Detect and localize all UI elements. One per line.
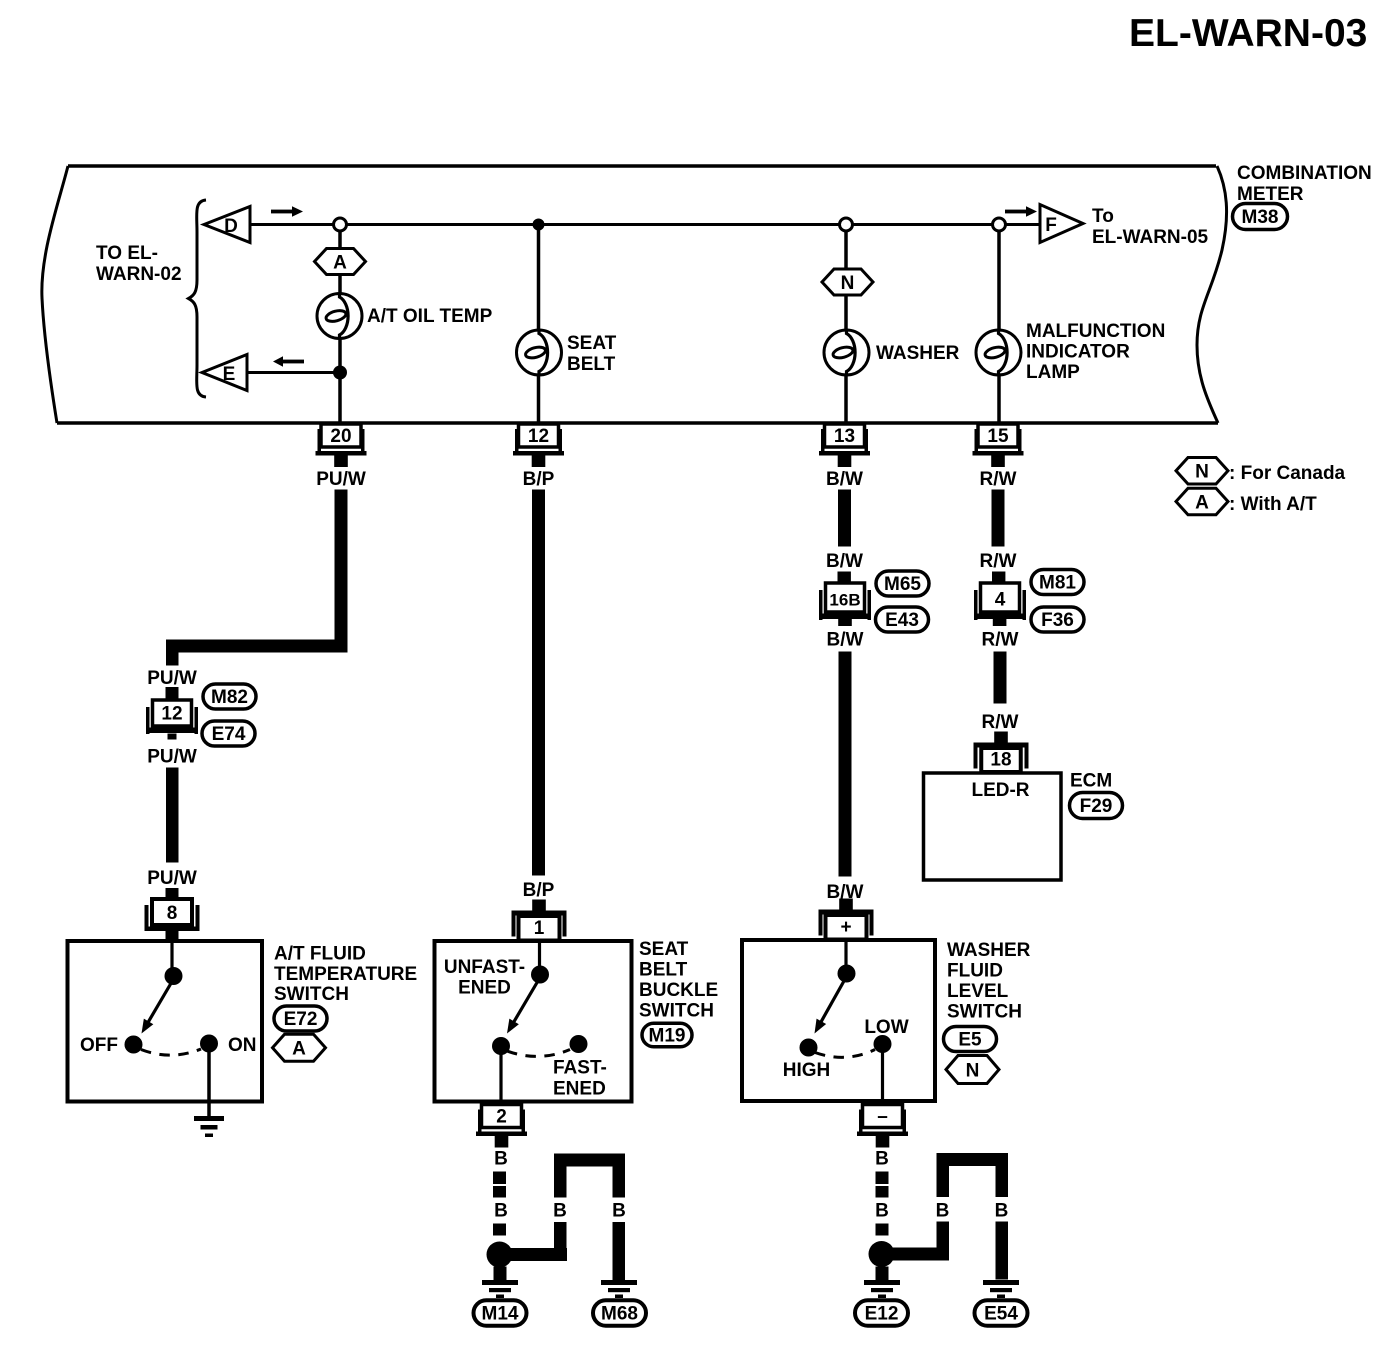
label A/T OIL TEMP bbox=[367, 306, 493, 327]
label PU/W (below E74) bbox=[147, 747, 197, 768]
wire B dash to splice bbox=[493, 1224, 506, 1236]
node MIL bus (open) bbox=[993, 218, 1006, 231]
svg-text:ENED: ENED bbox=[458, 978, 511, 999]
lamp MALFUNCTION INDICATOR bbox=[976, 329, 1021, 376]
svg-text:8: 8 bbox=[167, 903, 178, 924]
label B/W (below 16B) bbox=[827, 630, 864, 651]
svg-text:TEMPERATURE: TEMPERATURE bbox=[274, 964, 417, 985]
label PU/W (pin 20) bbox=[316, 469, 366, 490]
svg-text:ECM: ECM bbox=[1070, 771, 1112, 792]
svg-text:B: B bbox=[875, 1201, 889, 1222]
svg-text:TO EL-: TO EL- bbox=[96, 243, 158, 264]
svg-text:M68: M68 bbox=[601, 1304, 638, 1325]
connector 8 (A/T fluid temp switch) bbox=[145, 888, 200, 942]
connector 4 in-line bbox=[974, 583, 1026, 620]
svg-text:D: D bbox=[224, 216, 238, 237]
ground ref E54 bbox=[975, 1300, 1028, 1326]
wire branch inverted-U bbox=[554, 1154, 625, 1198]
contact HIGH bbox=[783, 1039, 831, 1082]
connector ref M19 bbox=[642, 1023, 692, 1047]
svg-text:M65: M65 bbox=[884, 574, 921, 595]
svg-text:R/W: R/W bbox=[980, 551, 1017, 572]
wire A/T lamp column bbox=[338, 225, 342, 424]
legend tag A bbox=[1176, 488, 1317, 515]
combination meter label bbox=[1237, 163, 1372, 205]
svg-text:EL-WARN-03: EL-WARN-03 bbox=[1129, 12, 1367, 55]
wire stub below 16B bbox=[838, 614, 852, 626]
svg-text:12: 12 bbox=[161, 704, 182, 725]
svg-text:PU/W: PU/W bbox=[147, 747, 197, 768]
splice (washer grounds) bbox=[869, 1241, 895, 1267]
svg-text:B: B bbox=[553, 1201, 567, 1222]
svg-text:E54: E54 bbox=[984, 1304, 1018, 1325]
wire PU/W to connector 8 bbox=[166, 768, 179, 863]
combination meter box M38 bbox=[42, 166, 1227, 423]
svg-text:A/T FLUID: A/T FLUID bbox=[274, 944, 366, 965]
svg-text:B: B bbox=[612, 1201, 626, 1222]
ground M68 bbox=[601, 1280, 637, 1298]
svg-text:B: B bbox=[494, 1201, 508, 1222]
svg-text:BELT: BELT bbox=[567, 354, 616, 375]
wire into switch bbox=[170, 943, 173, 970]
connector - (washer switch) bbox=[857, 1105, 908, 1148]
svg-text:N: N bbox=[841, 273, 855, 294]
lamp SEAT BELT bbox=[517, 329, 562, 376]
svg-text:M82: M82 bbox=[211, 687, 248, 708]
wire stub above 16B bbox=[838, 572, 851, 584]
svg-text:R/W: R/W bbox=[980, 469, 1017, 490]
wire LOW to pin - bbox=[881, 1044, 884, 1100]
wire seat belt lamp column bbox=[537, 225, 541, 424]
ground ref M68 bbox=[593, 1300, 646, 1326]
label R/W (above ECM) bbox=[982, 712, 1019, 733]
label B (below pin -) bbox=[875, 1149, 889, 1170]
off-page connector D bbox=[204, 207, 250, 243]
wire PU/W thick run bbox=[166, 490, 348, 666]
wire into washer switch bbox=[844, 942, 847, 968]
washer switch pivot bbox=[838, 965, 856, 983]
connector ref E43 bbox=[876, 607, 929, 632]
option tag A (with A/T) bbox=[315, 249, 366, 275]
wire to ground M68 bbox=[613, 1222, 626, 1280]
junction E branch bbox=[333, 366, 347, 380]
arrow right at D bbox=[271, 206, 303, 216]
svg-text:LED-R: LED-R bbox=[971, 780, 1029, 801]
svg-text:OFF: OFF bbox=[80, 1035, 118, 1056]
svg-text:EL-WARN-05: EL-WARN-05 bbox=[1092, 227, 1209, 248]
contact OFF bbox=[80, 1035, 143, 1056]
wire stub below 4 bbox=[993, 614, 1007, 626]
connector 13 (combination meter) bbox=[819, 424, 870, 467]
splice (seat belt grounds) bbox=[487, 1242, 513, 1268]
wire main bus bbox=[250, 223, 1040, 226]
switch throw arc bbox=[141, 1049, 201, 1055]
arrow right at F bbox=[1005, 206, 1037, 216]
connector ref F29 bbox=[1070, 793, 1123, 819]
arrow left at E bbox=[273, 356, 304, 366]
svg-text:–: – bbox=[877, 1107, 888, 1128]
label B/W (above washer sw) bbox=[827, 882, 864, 903]
svg-text:SWITCH: SWITCH bbox=[639, 1001, 714, 1022]
connector 18 (ECM) bbox=[974, 732, 1029, 773]
connector + (washer fluid level switch) bbox=[819, 899, 874, 940]
svg-text:R/W: R/W bbox=[982, 712, 1019, 733]
svg-text:20: 20 bbox=[330, 426, 351, 447]
svg-text:A: A bbox=[1195, 493, 1209, 514]
off-page connector F bbox=[1040, 205, 1083, 243]
ECM box bbox=[924, 773, 1062, 880]
connector ref M38 bbox=[1233, 204, 1288, 230]
svg-text:BELT: BELT bbox=[639, 960, 688, 981]
svg-text:E43: E43 bbox=[885, 610, 919, 631]
label B/P (above pin 1) bbox=[523, 880, 555, 901]
svg-text:A/T OIL TEMP: A/T OIL TEMP bbox=[367, 306, 493, 327]
label B/W (above 16B) bbox=[826, 551, 863, 572]
ground M14 bbox=[482, 1267, 518, 1299]
label seat belt buckle switch bbox=[639, 939, 718, 1022]
contact ON bbox=[200, 1035, 257, 1057]
label R/W (pin 15) bbox=[980, 469, 1017, 490]
wire B/P thick run bbox=[532, 490, 545, 876]
label B (branch right) bbox=[612, 1201, 626, 1222]
svg-text:F: F bbox=[1045, 215, 1057, 236]
svg-text:A: A bbox=[292, 1039, 306, 1060]
svg-text:R/W: R/W bbox=[982, 630, 1019, 651]
svg-text:15: 15 bbox=[987, 426, 1009, 447]
label R/W (below 4) bbox=[982, 630, 1019, 651]
wire splice to branch bbox=[509, 1222, 567, 1261]
wire stub above connector 12 bbox=[166, 687, 179, 701]
washer switch throw arc bbox=[815, 1050, 875, 1058]
wire washer lamp column bbox=[844, 225, 848, 424]
ground ref E12 bbox=[855, 1300, 908, 1326]
svg-text:WASHER: WASHER bbox=[876, 343, 960, 364]
off-page connector E bbox=[202, 355, 247, 391]
svg-text:M38: M38 bbox=[1242, 207, 1279, 228]
washer switch arm bbox=[815, 977, 847, 1034]
svg-text:ON: ON bbox=[228, 1035, 257, 1056]
svg-text:HIGH: HIGH bbox=[783, 1060, 831, 1081]
svg-text:4: 4 bbox=[995, 590, 1006, 611]
wire B/W upper bbox=[838, 490, 851, 547]
svg-text:B: B bbox=[936, 1201, 950, 1222]
ground (A/T switch) bbox=[194, 1116, 224, 1137]
wire B dashed upper bbox=[493, 1172, 506, 1198]
lamp A/T OIL TEMP bbox=[317, 293, 362, 340]
label B (washer branch left) bbox=[936, 1201, 950, 1222]
label B (above splice M14) bbox=[494, 1201, 508, 1222]
svg-text:: With A/T: : With A/T bbox=[1229, 494, 1317, 515]
svg-text:BUCKLE: BUCKLE bbox=[639, 980, 718, 1001]
ground E54 bbox=[983, 1280, 1019, 1298]
wire R/W middle bbox=[994, 652, 1007, 704]
lamp WASHER bbox=[824, 329, 869, 376]
connector ref E72 bbox=[274, 1006, 327, 1031]
label ECM bbox=[1070, 771, 1112, 792]
connector ref M81 bbox=[1031, 570, 1084, 595]
label PU/W (above M82) bbox=[147, 668, 197, 689]
svg-text:A: A bbox=[333, 253, 347, 274]
svg-text:UNFAST-: UNFAST- bbox=[444, 957, 525, 978]
svg-text:12: 12 bbox=[528, 426, 549, 447]
label LED-R bbox=[971, 780, 1029, 801]
svg-text:SEAT: SEAT bbox=[639, 939, 689, 960]
seat belt buckle switch box bbox=[435, 941, 632, 1102]
label WASHER bbox=[876, 343, 960, 364]
ground ref M14 bbox=[474, 1300, 527, 1326]
svg-text:B/W: B/W bbox=[826, 551, 863, 572]
wire B/W long run bbox=[839, 652, 852, 877]
svg-text:PU/W: PU/W bbox=[147, 868, 197, 889]
label B (above splice E12) bbox=[875, 1201, 889, 1222]
connector ref M65 bbox=[876, 571, 929, 596]
svg-text:E72: E72 bbox=[284, 1009, 318, 1030]
contact unfastened bbox=[492, 1037, 510, 1055]
connector ref E74 bbox=[202, 721, 255, 746]
svg-text:M19: M19 bbox=[649, 1026, 686, 1047]
svg-text:SWITCH: SWITCH bbox=[274, 984, 349, 1005]
wire to ground E54 bbox=[996, 1222, 1009, 1280]
svg-text:COMBINATION: COMBINATION bbox=[1237, 163, 1372, 184]
svg-text:M81: M81 bbox=[1039, 573, 1076, 594]
label FASTENED bbox=[553, 1058, 607, 1100]
svg-text:B: B bbox=[995, 1201, 1009, 1222]
svg-text:N: N bbox=[1195, 462, 1209, 483]
wire unfastened to pin 2 bbox=[499, 1046, 502, 1100]
buckle switch arm bbox=[507, 978, 540, 1034]
connector 12 in-line bbox=[146, 700, 198, 734]
wire branch inverted-U (washer) bbox=[937, 1153, 1009, 1197]
svg-text:MALFUNCTION: MALFUNCTION bbox=[1026, 321, 1165, 342]
svg-text:FLUID: FLUID bbox=[947, 961, 1003, 982]
svg-text:16B: 16B bbox=[829, 591, 860, 610]
label B/P (pin 12) bbox=[523, 469, 555, 490]
title EL-WARN-03 bbox=[1129, 12, 1367, 55]
label MALFUNCTION INDICATOR LAMP bbox=[1026, 321, 1165, 383]
node washer bus (open) bbox=[840, 218, 853, 231]
svg-text:B/P: B/P bbox=[523, 880, 555, 901]
label R/W (above 4) bbox=[980, 551, 1017, 572]
brace to EL-WARN-02 bbox=[189, 200, 207, 397]
svg-text:FAST-: FAST- bbox=[553, 1058, 607, 1079]
svg-text:PU/W: PU/W bbox=[147, 668, 197, 689]
label B (branch left) bbox=[553, 1201, 567, 1222]
buckle switch pivot bbox=[531, 966, 549, 984]
contact LOW bbox=[864, 1017, 908, 1053]
svg-text:E5: E5 bbox=[958, 1030, 982, 1051]
svg-text:1: 1 bbox=[534, 918, 545, 939]
connector 15 (combination meter) bbox=[973, 424, 1024, 467]
wire splice to branch (washer) bbox=[891, 1222, 949, 1261]
option tag A (switch) bbox=[273, 1034, 326, 1061]
svg-text:2: 2 bbox=[496, 1107, 507, 1128]
wire stub above 4 bbox=[992, 572, 1005, 584]
wire stub below connector 12 bbox=[168, 734, 177, 740]
contact fastened bbox=[570, 1035, 588, 1053]
svg-text:13: 13 bbox=[834, 426, 855, 447]
svg-text:E12: E12 bbox=[865, 1304, 899, 1325]
option tag N (washer switch) bbox=[946, 1056, 999, 1084]
svg-text:INDICATOR: INDICATOR bbox=[1026, 342, 1130, 363]
connector 2 (buckle switch) bbox=[476, 1105, 527, 1148]
label SEAT BELT bbox=[567, 333, 617, 375]
washer fluid level switch box bbox=[742, 940, 935, 1101]
A/T fluid temperature switch box bbox=[68, 941, 263, 1102]
label B (below pin 2) bbox=[494, 1149, 508, 1170]
svg-text:To: To bbox=[1092, 206, 1114, 227]
label TO EL-WARN-02 bbox=[96, 243, 182, 285]
label B (washer branch right) bbox=[995, 1201, 1009, 1222]
svg-text:B: B bbox=[494, 1149, 508, 1170]
label B/W (pin 13) bbox=[826, 469, 863, 490]
svg-text:18: 18 bbox=[990, 750, 1011, 771]
connector 1 (seat belt buckle switch) bbox=[512, 900, 567, 941]
switch arm bbox=[142, 979, 174, 1034]
svg-text:WASHER: WASHER bbox=[947, 940, 1031, 961]
svg-text:SWITCH: SWITCH bbox=[947, 1002, 1022, 1023]
svg-text:E: E bbox=[223, 364, 236, 385]
svg-text:ENED: ENED bbox=[553, 1079, 606, 1100]
connector 12 (combination meter) bbox=[513, 424, 564, 467]
wire ON to ground bbox=[207, 1044, 211, 1117]
connector ref F36 bbox=[1031, 607, 1084, 632]
svg-text:B/W: B/W bbox=[827, 630, 864, 651]
label A/T fluid temperature switch bbox=[274, 944, 417, 1006]
wire E branch bbox=[247, 371, 341, 374]
svg-text:PU/W: PU/W bbox=[316, 469, 366, 490]
svg-text:LEVEL: LEVEL bbox=[947, 981, 1009, 1002]
svg-text:LAMP: LAMP bbox=[1026, 362, 1080, 383]
svg-text:N: N bbox=[966, 1061, 980, 1082]
wire into buckle switch bbox=[538, 943, 541, 969]
wire R/W upper bbox=[992, 490, 1005, 547]
svg-text:WARN-02: WARN-02 bbox=[96, 264, 182, 285]
svg-text:M14: M14 bbox=[482, 1304, 519, 1325]
buckle switch throw arc bbox=[507, 1050, 570, 1057]
wire B dashed upper (washer) bbox=[876, 1172, 889, 1198]
svg-text:+: + bbox=[840, 917, 851, 938]
option tag N (for Canada) bbox=[822, 269, 873, 295]
label To EL-WARN-05 bbox=[1092, 206, 1209, 248]
node A/T bus (open) bbox=[334, 218, 347, 231]
wire MIL lamp column bbox=[997, 225, 1001, 424]
svg-text:B/P: B/P bbox=[523, 469, 555, 490]
junction seat belt bus bbox=[533, 219, 545, 231]
svg-text:LOW: LOW bbox=[864, 1017, 908, 1038]
svg-text:B/W: B/W bbox=[826, 469, 863, 490]
svg-text:: For Canada: : For Canada bbox=[1229, 463, 1346, 484]
svg-text:E74: E74 bbox=[212, 724, 246, 745]
connector ref M82 bbox=[203, 684, 256, 709]
switch pivot bbox=[165, 967, 183, 985]
label washer fluid level switch bbox=[947, 940, 1031, 1023]
label PU/W (above pin 8) bbox=[147, 868, 197, 889]
connector 16B in-line bbox=[819, 583, 871, 620]
legend tag N bbox=[1176, 457, 1346, 484]
label UNFASTENED bbox=[444, 957, 525, 999]
wire B dash to splice (washer) bbox=[876, 1224, 889, 1236]
svg-text:SEAT: SEAT bbox=[567, 333, 617, 354]
svg-text:B: B bbox=[875, 1149, 889, 1170]
connector 20 (combination meter) bbox=[316, 424, 367, 467]
svg-text:F29: F29 bbox=[1080, 796, 1113, 817]
ground E12 bbox=[864, 1267, 900, 1299]
svg-text:F36: F36 bbox=[1041, 610, 1074, 631]
connector ref E5 bbox=[944, 1027, 997, 1052]
